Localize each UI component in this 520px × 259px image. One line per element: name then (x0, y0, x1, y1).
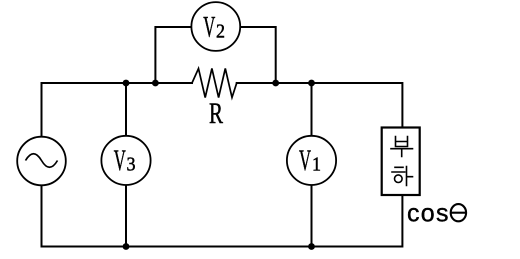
wire: V3 branch upper (125, 83, 127, 136)
svg-text:2: 2 (216, 21, 225, 43)
voltmeter V3 circle (101, 136, 150, 185)
svg-text:1: 1 (312, 154, 321, 176)
node: junction V3 top (123, 80, 130, 87)
node: junction V3 bottom (123, 243, 130, 250)
svg-text:3: 3 (127, 154, 136, 176)
wire: bottom bus and load box bottom lead (42, 195, 403, 247)
voltmeter V2 label (203, 11, 225, 44)
svg-text:V: V (114, 144, 126, 177)
svg-text:V: V (203, 11, 215, 44)
wire: V1 branch lower (311, 185, 313, 247)
voltmeter V2 circle (191, 2, 240, 51)
wire: AC source top up and top bus to resistor left (42, 83, 193, 137)
node: junction V2 right (272, 80, 279, 87)
svg-text:R: R (209, 97, 223, 130)
svg-text:V: V (299, 144, 311, 177)
load label hangul BU (part of 부하) (391, 137, 413, 157)
node: junction V2 left (152, 80, 159, 87)
wire: V2 branch right (from meter down to top bus) (240, 27, 276, 83)
load box (382, 128, 420, 196)
AC source sine wave (26, 154, 58, 168)
wire: V3 branch lower (125, 185, 127, 247)
AC source circle (17, 137, 66, 186)
svg-text:cos: cos (407, 199, 450, 227)
wire: V2 branch left (up from top bus and across to meter) (155, 27, 191, 83)
wire: top bus from resistor right to load box top (237, 83, 403, 128)
voltmeter V3 label (114, 144, 136, 177)
power factor theta symbol (451, 204, 466, 221)
wire: AC source bottom (41, 185, 43, 246)
node: junction V1 bottom (308, 243, 315, 250)
resistor R1 zigzag (192, 69, 237, 98)
wire: V1 branch upper (311, 83, 313, 136)
node: junction V1 top (308, 80, 315, 87)
voltmeter V1 circle (287, 136, 336, 185)
load label hangul HA (part of 부하) (392, 167, 413, 186)
voltmeter V1 label (299, 144, 321, 177)
